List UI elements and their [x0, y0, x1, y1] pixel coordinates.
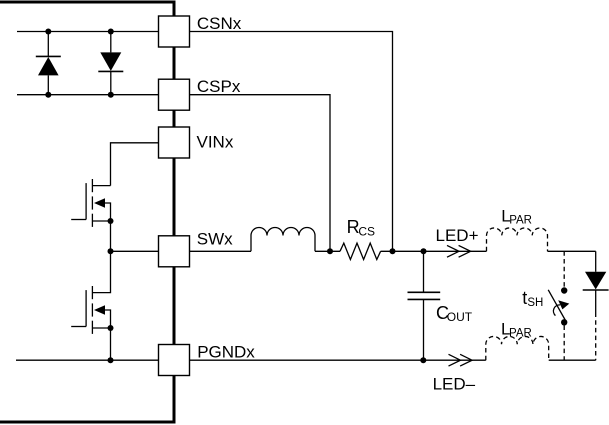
pin CSPx: [159, 79, 190, 110]
pin SWx: [159, 236, 190, 267]
transistor M1 (high-side NMOS): [71, 179, 110, 227]
wire SWx pin to inductor: [190, 250, 252, 252]
wire VINx to high-side FET drain: [111, 143, 159, 186]
IC outline bottom edge: [0, 421, 174, 424]
svg-text:OUT: OUT: [447, 310, 473, 324]
junction dot CSN-D1: [45, 29, 51, 35]
pin CSNx: [159, 16, 190, 47]
wire LPAR bottom to LED cathode: [549, 359, 596, 361]
svg-text:CS: CS: [358, 224, 375, 238]
wire LPAR top to LED anode: [548, 250, 596, 252]
capacitor COUT: [408, 251, 441, 360]
junction dot COUT bottom: [420, 357, 426, 363]
svg-text:CSNx: CSNx: [197, 14, 242, 33]
svg-text:PGNDx: PGNDx: [197, 342, 255, 361]
svg-text:VINx: VINx: [197, 133, 234, 152]
svg-text:CSPx: CSPx: [197, 77, 241, 96]
wire Rcs to LED+ node: [381, 250, 487, 252]
wire CSNx left stub: [17, 31, 159, 33]
junction dot CSP-D1: [45, 92, 51, 98]
junction dot CSP-D2: [108, 92, 114, 98]
wire CSNx to Rcs right terminal: [190, 32, 393, 252]
wire inductor to Rcs: [315, 250, 340, 252]
inductor L (switching): [251, 228, 315, 252]
diode D2 (anode top, cathode bottom): [98, 32, 123, 95]
switch tSH: [548, 287, 569, 325]
svg-text:PAR: PAR: [509, 214, 532, 226]
wire CSPx to Rcs left terminal: [190, 95, 331, 252]
wire switch top (dashed): [563, 251, 565, 287]
wire M1 source to SW node: [110, 221, 112, 251]
svg-text:SWx: SWx: [197, 229, 233, 248]
junction dot CSN-D2: [108, 29, 114, 35]
junction dot M1 source: [108, 218, 114, 224]
junction dot COUT top: [421, 248, 427, 254]
IC outline right edge: [173, 1, 176, 424]
svg-text:PAR: PAR: [509, 327, 532, 339]
inductor LPAR top (parasitic, dashed): [487, 228, 548, 251]
svg-text:LED+: LED+: [436, 226, 479, 245]
wire PGND left stub: [16, 359, 159, 361]
wire LED anode drop: [595, 251, 597, 271]
inductor LPAR bottom (parasitic, dashed): [486, 336, 549, 360]
svg-text:SH: SH: [527, 297, 543, 309]
junction dot CSN node: [390, 248, 396, 254]
IC outline top edge: [0, 1, 174, 4]
junction dot PGND node: [108, 357, 114, 363]
arrow LED- current: [449, 354, 473, 366]
junction dot CSP node: [327, 248, 333, 254]
transistor M2 (low-side NMOS): [71, 286, 110, 334]
wire switch bottom (dashed): [563, 326, 565, 361]
pin VINx: [159, 127, 190, 158]
wire SW node to SWx pin: [111, 250, 159, 252]
wire CSPx left stub: [17, 94, 159, 96]
svg-text:LED–: LED–: [433, 375, 476, 394]
junction dot M2 source: [108, 325, 114, 331]
wire M2 source to PGND rail: [110, 328, 112, 360]
diode D1 (anode bottom, cathode top): [36, 32, 61, 95]
diode LED: [583, 272, 609, 360]
resistor RCS: [340, 243, 381, 259]
pin PGNDx: [159, 345, 190, 376]
arrow LED+ current: [447, 245, 471, 257]
wire PGNDx pin to LPAR bottom: [190, 359, 486, 361]
junction dot SW node: [108, 248, 114, 254]
wire SW node to low-side FET drain: [92, 251, 110, 292]
